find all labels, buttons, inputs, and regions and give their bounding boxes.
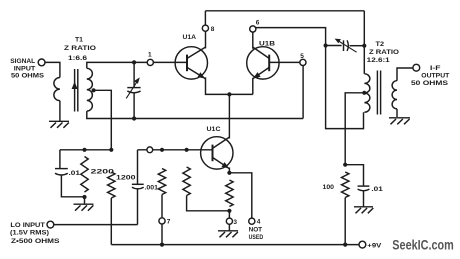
svg-text:SIGNAL: SIGNAL	[10, 58, 35, 65]
wire: T2 secondary bottom to ground	[396, 109, 398, 117]
svg-text:Z RATIO: Z RATIO	[64, 45, 96, 52]
wire: top rail pin8 to T2 side	[205, 10, 364, 12]
svg-text:Z RATIO: Z RATIO	[369, 49, 399, 56]
svg-text:2200: 2200	[91, 168, 115, 175]
transformer T2 primary winding	[364, 74, 369, 112]
svg-text:1:6.6: 1:6.6	[68, 55, 87, 62]
T1 core lines with tuning arrow	[74, 69, 76, 112]
wire: pin 6 right then down to varcap C2 left node	[256, 28, 326, 46]
wire: U1A collector to pin 8	[205, 32, 207, 49]
svg-text:7: 7	[167, 219, 171, 226]
svg-text:.01: .01	[371, 186, 383, 193]
node: junction varcap C1 top	[132, 60, 136, 64]
svg-text:T2: T2	[376, 41, 385, 48]
svg-text:50 OHMS: 50 OHMS	[411, 80, 449, 87]
svg-text:I-F: I-F	[430, 65, 441, 72]
terminal +9V	[359, 241, 366, 248]
svg-text:50 OHMS: 50 OHMS	[11, 73, 45, 80]
svg-text:U1A: U1A	[183, 34, 197, 41]
svg-text:.01: .01	[69, 170, 81, 177]
svg-text:6: 6	[256, 20, 260, 27]
pin 6	[250, 26, 256, 32]
wire: U1A emitter down and emitter rail to U1B emitter	[206, 77, 253, 94]
wire: pin 3 to ground	[228, 224, 230, 230]
pin 8	[202, 25, 208, 31]
capacitor .01 (left)	[59, 150, 61, 168]
capacitor .001	[137, 150, 139, 184]
wire: pin6 node down to T2 primary bottom	[326, 46, 364, 129]
svg-text:1: 1	[148, 52, 152, 59]
wire: +9V rail	[111, 244, 359, 246]
svg-text:3: 3	[233, 219, 237, 226]
wire: signal input to T1 primary	[45, 62, 60, 77]
node: 100-ohm on rail	[343, 243, 347, 247]
svg-text:USED: USED	[249, 234, 264, 241]
wire: LO bias line into U1C base	[138, 149, 213, 151]
wire: LO input to .001 cap	[54, 224, 138, 226]
pin 1	[147, 59, 153, 65]
node: varcap C2 right / T2 top	[362, 44, 366, 48]
svg-text:NOT: NOT	[249, 227, 263, 234]
wire: pin 1 to U1A base	[154, 61, 188, 63]
svg-text:8: 8	[211, 26, 215, 33]
node: emitter resistor bottom	[227, 209, 231, 213]
svg-text:5: 5	[300, 53, 304, 60]
pin 2 (unlabeled)	[147, 147, 153, 153]
wire: U1C collector up to emitter rail (crosses base rail)	[228, 94, 230, 138]
node: C1 bottom on rail	[132, 116, 136, 120]
svg-text:T1: T1	[75, 37, 83, 44]
svg-text:.001: .001	[145, 185, 159, 192]
ground: bias network	[74, 203, 94, 205]
node: 2200 bottom	[82, 195, 86, 199]
terminal I-F OUTPUT	[413, 64, 420, 71]
svg-text:INPUT: INPUT	[14, 65, 36, 72]
svg-text:4: 4	[257, 219, 261, 226]
node: pin7 resistor top	[160, 148, 164, 152]
wire: 100 bottom to +9V rail	[344, 198, 346, 245]
svg-text:1200: 1200	[116, 174, 136, 181]
wire: pin7 down to +9V rail	[161, 224, 163, 245]
ground: .01 right	[354, 206, 373, 208]
svg-text:100: 100	[323, 184, 335, 191]
transistor U1B (mirrored)	[247, 47, 279, 79]
node: T2 primary tap	[362, 91, 366, 95]
wire: T1 secondary top to node 1 and U1A base	[87, 62, 147, 68]
wire: T2 secondary top to I-F output	[397, 68, 413, 81]
resistor base-emitter	[183, 167, 190, 196]
wire: T1 primary bottom lead	[59, 101, 61, 122]
ground: pin 3	[218, 230, 238, 232]
ground: T2 secondary	[389, 117, 410, 119]
wire: left bias segment y150	[60, 149, 111, 151]
node: pin7 on rail	[160, 243, 164, 247]
node: emitter rail / U1C collector	[227, 92, 231, 96]
wire: U1B emitter down to emitter rail	[252, 78, 254, 95]
svg-text:SeekIC.com: SeekIC.com	[392, 237, 454, 252]
resistor to pin 7	[158, 169, 165, 195]
pin 7	[159, 218, 165, 224]
node: 2200 top	[82, 148, 86, 152]
wire: down to pin 3	[228, 211, 230, 218]
svg-text:Z•500 OHMS: Z•500 OHMS	[11, 238, 60, 245]
svg-text:+9V: +9V	[367, 243, 382, 250]
wire: base resistor bottom to emitter-res bottom	[187, 196, 229, 211]
transformer T1 primary winding	[54, 77, 60, 100]
pin 3	[226, 218, 232, 224]
wire: U1B collector up to pin 6	[252, 32, 254, 49]
node: T1 secondary tap	[92, 88, 96, 92]
pin 4 NOT USED	[249, 218, 255, 224]
node: base resistor top	[185, 148, 189, 152]
wire: base-line rail y118 from T1 bottom to pin 5 riser	[87, 111, 303, 118]
transformer T1 secondary winding	[87, 68, 93, 111]
wire: U1B base to pin 5	[269, 61, 300, 63]
capacitor .01 (right)	[345, 165, 363, 186]
resistor 100	[342, 172, 349, 198]
svg-text:OUTPUT: OUTPUT	[421, 73, 450, 80]
wire: emitter node right and down to pin 4	[229, 173, 251, 218]
wire: T2 tap left and down to 100-ohm node	[345, 93, 364, 165]
node: 100-ohm / .01 top	[343, 163, 347, 167]
node: U1C emitter	[227, 171, 231, 175]
svg-text:U1B: U1B	[259, 40, 275, 47]
resistor 1200	[108, 172, 115, 198]
wire: to ground stub	[84, 197, 86, 204]
wire: U1C emitter down	[228, 168, 230, 173]
ground: T1 primary	[49, 120, 69, 122]
node: varcap C2 left	[324, 43, 328, 47]
transformer T2 secondary winding	[392, 81, 397, 109]
resistor U1C emitter	[226, 180, 233, 207]
pin 5	[300, 59, 306, 65]
variable capacitor C1 across T1 secondary	[133, 62, 135, 87]
svg-text:LO INPUT: LO INPUT	[10, 222, 45, 229]
variable capacitor C2	[326, 45, 342, 47]
terminal SIGNAL INPUT	[38, 59, 45, 66]
wire: resistor to pin7	[161, 195, 163, 218]
transistor U1C	[201, 137, 233, 169]
svg-text:(1.5V RMS): (1.5V RMS)	[10, 229, 49, 236]
node: tap/1200 junction	[109, 148, 113, 152]
terminal LO INPUT	[47, 221, 54, 228]
wire: pin 8 up to top rail	[204, 11, 206, 25]
wire: pin 5 down to base rail	[302, 66, 304, 119]
svg-text:12.6:1: 12.6:1	[367, 57, 390, 64]
resistor 2200	[81, 157, 88, 193]
T2 core lines	[376, 71, 378, 115]
wire: right vertical from top rail down to T2 primary top	[363, 11, 365, 74]
wire: 1200 bottom to +9V rail corner (crosses LO wire)	[110, 198, 112, 245]
svg-text:U1C: U1C	[207, 126, 221, 133]
transistor U1A	[175, 47, 207, 79]
wire: tap to bias node, crossing 118-rail	[94, 90, 112, 150]
